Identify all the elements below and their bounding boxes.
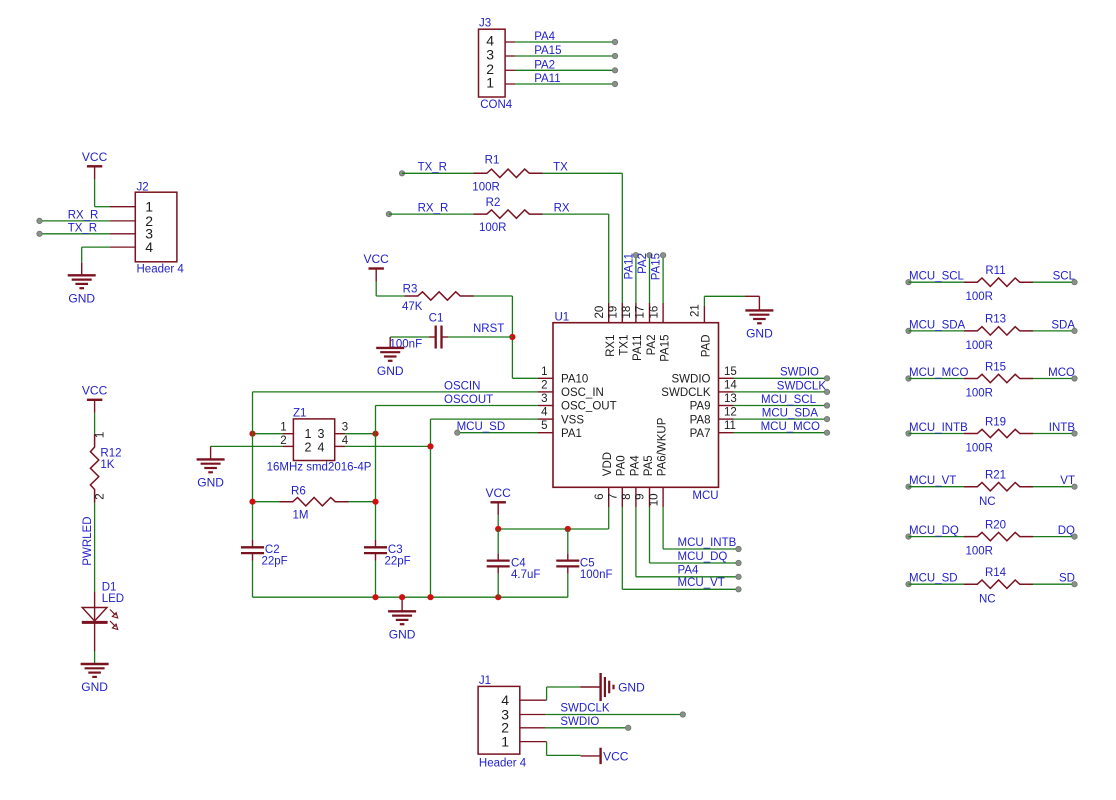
wire net PA11 vertical: [635, 255, 637, 303]
wire Z1 pin 2 to GND: [211, 445, 283, 447]
wire RX: [543, 213, 609, 215]
svg-text:SWDCLK: SWDCLK: [560, 703, 610, 715]
wire OSCOUT vertical below C3: [375, 561, 377, 598]
wire net MCU_INTB: [663, 548, 738, 550]
svg-text:15: 15: [724, 366, 737, 378]
wire pin 4 up: [546, 687, 548, 700]
wire TX_R to R1: [402, 172, 474, 174]
svg-text:8: 8: [621, 494, 633, 500]
svg-text:1: 1: [305, 427, 312, 441]
wire end node MCU_MCO: [824, 430, 829, 435]
svg-text:GND: GND: [618, 680, 645, 694]
wire C5 to rail: [567, 574, 569, 597]
label J2 designator: [137, 182, 149, 194]
junction rail GND: [399, 594, 405, 600]
label C4 designator: [511, 557, 526, 569]
svg-text:R15: R15: [985, 361, 1006, 373]
svg-text:R11: R11: [985, 265, 1005, 277]
svg-text:16: 16: [648, 306, 660, 319]
U1 pin 6 number: [594, 494, 606, 500]
svg-text:PA5: PA5: [643, 455, 655, 476]
svg-text:PA2: PA2: [646, 335, 658, 356]
wire end node MCU_SCL: [824, 403, 829, 408]
net label VT: [1060, 475, 1075, 487]
wire RX vertical to pin 20: [608, 214, 610, 303]
wire pin 21 to GND: [704, 295, 745, 297]
svg-text:OSC_OUT: OSC_OUT: [561, 401, 617, 413]
svg-text:R1: R1: [485, 155, 500, 167]
svg-text:PA4: PA4: [678, 565, 699, 577]
svg-text:VDD: VDD: [602, 452, 614, 476]
junction NRST node: [509, 334, 515, 340]
label R6 value 1M: [293, 509, 309, 521]
U1 pin 21 stub: [703, 306, 705, 323]
J1 pin 4 number: [501, 692, 509, 708]
U1 pin 14 number: [724, 379, 737, 391]
svg-text:D1: D1: [102, 581, 117, 593]
net label SWDCLK: [777, 380, 827, 392]
resistor R1: [474, 169, 543, 177]
resistor R11: [964, 278, 1033, 286]
wire net MCU_INTB: [909, 433, 965, 435]
label J1 value Header 4: [479, 758, 527, 770]
U1 pin 16 number: [648, 306, 660, 319]
Z1 pin 2 number: [280, 435, 286, 447]
svg-text:VCC: VCC: [82, 150, 108, 164]
svg-text:MCU_SCL: MCU_SCL: [909, 271, 965, 283]
J1 pin 3 number: [501, 706, 509, 722]
U1 pin name PA8: [690, 414, 711, 426]
net label MCO: [1048, 367, 1075, 379]
wire net MCU_DQ: [650, 562, 739, 564]
svg-text:R2: R2: [486, 197, 501, 209]
U1 pin 10 stub: [662, 487, 664, 507]
wire net OSCOUT: [376, 405, 539, 407]
svg-text:MCU_MCO: MCU_MCO: [761, 421, 820, 433]
svg-text:C2: C2: [265, 544, 280, 556]
wire net MCU_MCO: [734, 432, 828, 434]
U1 pin 4 number: [541, 407, 548, 419]
C2 bottom lead: [252, 553, 254, 561]
wire net SWDCLK: [734, 391, 828, 393]
label C1 designator: [429, 313, 444, 325]
capacitor C3 plates: [364, 547, 387, 553]
label D1 value LED: [102, 593, 124, 605]
label R15 designator: [985, 361, 1006, 373]
J2 pin 1 stub: [110, 206, 135, 208]
svg-text:VCC: VCC: [364, 252, 390, 266]
label R1 designator: [485, 155, 500, 167]
svg-text:4: 4: [145, 239, 153, 255]
U1 pin 17 stub: [649, 303, 651, 323]
svg-text:INTB: INTB: [1049, 422, 1076, 434]
U1 pin 12 number: [724, 407, 737, 419]
svg-text:2: 2: [541, 379, 547, 391]
svg-text:MCU_SCL: MCU_SCL: [761, 394, 817, 406]
net label PA4: [534, 31, 555, 43]
svg-text:MCU_SDA: MCU_SDA: [762, 408, 819, 420]
D1 cathode bar: [82, 621, 108, 624]
net label MCU_MCO: [909, 367, 968, 379]
svg-text:MCU_VT: MCU_VT: [678, 577, 725, 589]
label R12 value 1K: [100, 459, 114, 471]
wire end node SWDCLK: [824, 389, 829, 394]
wire RX_R to R2: [389, 213, 474, 215]
junction R6 left node: [249, 499, 255, 505]
svg-text:OSCOUT: OSCOUT: [444, 394, 493, 406]
svg-text:R13: R13: [985, 314, 1006, 326]
wire VCC to R3: [375, 282, 377, 297]
Z1 pin 1 number: [280, 421, 286, 433]
label C5 value 100nF: [580, 569, 613, 581]
wire VCC down: [497, 515, 499, 529]
svg-text:1: 1: [501, 734, 509, 750]
wire net INTB: [1033, 433, 1075, 435]
svg-text:100R: 100R: [966, 388, 994, 400]
svg-text:PA11: PA11: [534, 73, 560, 85]
power VCC (D1): [82, 384, 108, 413]
svg-text:1: 1: [95, 432, 107, 438]
wire net PA4: [515, 41, 615, 43]
U1 pin 17 number: [635, 306, 647, 319]
ground GND (rail): [388, 611, 416, 641]
svg-text:C4: C4: [511, 557, 526, 569]
wire end node PA15: [660, 253, 665, 258]
U1 pin name PA2: [646, 335, 658, 356]
junction VCC C4: [495, 526, 501, 532]
wire net MCU_SD (pin 5): [457, 432, 538, 434]
power VCC (J1): [581, 748, 629, 764]
label C3 value 22pF: [385, 556, 411, 568]
J2 pin 3 number: [145, 226, 153, 242]
junction R6 right node: [372, 499, 378, 505]
svg-text:22pF: 22pF: [262, 556, 288, 568]
svg-text:11: 11: [724, 420, 736, 432]
svg-text:Header 4: Header 4: [137, 264, 185, 276]
J3 pin 2 number: [486, 61, 494, 77]
svg-text:100R: 100R: [966, 443, 994, 455]
ground GND (C1): [376, 348, 404, 378]
GND stub: [81, 263, 83, 276]
svg-text:NC: NC: [979, 594, 996, 606]
net label MCU_SDA: [909, 319, 966, 331]
svg-text:R21: R21: [985, 470, 1006, 482]
svg-text:PA1: PA1: [561, 428, 582, 440]
U1 pin name VSS: [561, 414, 584, 426]
power VCC (J2): [82, 150, 108, 179]
U1 pin 4 stub: [538, 418, 553, 420]
C1 right lead: [442, 336, 449, 338]
wire to R6 left: [253, 501, 280, 503]
C4 bottom lead: [497, 566, 499, 574]
U1 pin 20 number: [594, 306, 606, 319]
U1 pin 16 stub: [662, 303, 664, 323]
svg-text:U1: U1: [555, 311, 570, 323]
label R13 value 100R: [966, 340, 994, 352]
net label OSCOUT: [444, 394, 493, 406]
wire MCU_INTB vertical: [662, 507, 664, 549]
wire PA4 vertical: [635, 507, 637, 577]
wire GND to C1: [390, 336, 429, 338]
wire end node PA2: [612, 68, 617, 73]
U1 pin 9 stub: [649, 487, 651, 507]
wire end node PA4: [736, 574, 741, 579]
U1 pin 11 stub: [719, 432, 734, 434]
svg-text:R19: R19: [985, 416, 1006, 428]
wire end node MCU_INTB: [906, 431, 911, 436]
net label RX: [554, 203, 570, 215]
D1 triangle: [82, 608, 107, 622]
wire TX: [543, 172, 623, 174]
wire end node RX_R: [37, 218, 42, 223]
svg-text:MCU_DQ: MCU_DQ: [678, 551, 728, 563]
wire D1 to GND: [94, 651, 96, 664]
svg-text:TX: TX: [553, 162, 568, 174]
resistor R12 1K vertical: [90, 434, 98, 503]
wire net SD: [1033, 583, 1075, 585]
svg-text:SDA: SDA: [1051, 319, 1075, 331]
U1 pin name PA9: [690, 401, 711, 413]
label R19 designator: [985, 416, 1006, 428]
label C2 value 22pF: [262, 556, 288, 568]
svg-text:20: 20: [594, 306, 606, 319]
svg-text:4: 4: [541, 407, 548, 419]
U1 pin 6 stub: [608, 487, 610, 507]
net label SWDIO: [780, 367, 819, 379]
wire net VT: [1033, 486, 1075, 488]
wire to GND: [547, 686, 581, 688]
label R6 designator: [291, 486, 306, 498]
wire to C5: [567, 529, 569, 553]
wire end node PA2: [647, 253, 652, 258]
svg-text:PA15: PA15: [659, 335, 671, 362]
U1 pin 20 stub: [608, 303, 610, 323]
svg-text:PA11: PA11: [632, 335, 644, 361]
wire VCC rail to pin 6: [498, 528, 609, 530]
wire end node PA11: [633, 253, 638, 258]
label R21 designator: [985, 470, 1006, 482]
svg-text:SWDCLK: SWDCLK: [777, 380, 827, 392]
label R19 value 100R: [966, 443, 994, 455]
R12 pin 1 number: [95, 432, 107, 438]
svg-text:J1: J1: [479, 675, 491, 687]
J1 pin 2 stub: [520, 727, 546, 729]
U1 pin 12 stub: [719, 418, 734, 420]
U1 pin 1 stub: [538, 377, 553, 379]
ground GND (pin 21): [745, 310, 773, 340]
svg-text:PAD: PAD: [701, 335, 713, 358]
U1 pin name PA6/WKUP: [657, 417, 669, 476]
wire end node MCU_DQ: [736, 560, 741, 565]
MCU U1 body: [553, 323, 719, 488]
capacitor C1 plates: [436, 326, 442, 349]
svg-text:MCU_SD: MCU_SD: [909, 573, 958, 585]
junction Z1 pin1 node: [249, 431, 255, 437]
wire net SWDIO: [734, 377, 828, 379]
U1 pin 21 number: [690, 304, 702, 317]
capacitor C4 plates: [487, 561, 510, 567]
svg-text:PA4: PA4: [534, 31, 555, 43]
wire end node MCU_SD: [906, 582, 911, 587]
svg-text:PA2: PA2: [637, 253, 649, 274]
net label RX_R: [418, 203, 449, 215]
D1 arrow 1: [110, 610, 118, 619]
U1 pin name PA5: [643, 455, 655, 476]
wire end node SCL: [1072, 280, 1077, 285]
wire net MCU_SCL: [734, 405, 828, 407]
net label PA11: [623, 253, 635, 279]
U1 pin name PA7: [690, 428, 711, 440]
wire net MCU_MCO: [909, 378, 965, 380]
wire NRST to pin 1: [512, 377, 538, 379]
C2 top lead: [252, 540, 254, 547]
svg-text:PA0: PA0: [616, 455, 628, 476]
net label MCU_SD: [909, 573, 958, 585]
label R12 designator: [100, 448, 121, 460]
wire VCC to R12: [94, 413, 96, 434]
U1 pin name SWDIO: [672, 374, 711, 386]
net label SDA: [1051, 319, 1075, 331]
svg-text:J3: J3: [479, 17, 491, 29]
wire VSS vertical: [430, 419, 432, 597]
J1 pin 2 number: [501, 720, 509, 736]
label C4 value 4.7uF: [511, 569, 540, 581]
wire J2 pin1 to VCC: [95, 206, 110, 208]
svg-text:R3: R3: [403, 284, 418, 296]
U1 pin 13 stub: [719, 405, 734, 407]
label J3 designator: [479, 17, 491, 29]
label R2 designator: [486, 197, 501, 209]
junction Z1 pin4 / VSS node: [427, 443, 433, 449]
wire OSCIN vertical: [252, 392, 254, 540]
wire net OSCIN: [253, 391, 539, 393]
J1 pin 1 stub: [520, 741, 547, 743]
U1 pin 7 stub: [621, 487, 623, 507]
wire end node SD: [1072, 582, 1077, 587]
svg-text:GND: GND: [389, 627, 416, 641]
wire end node MCU_VT: [906, 484, 911, 489]
net label RX_R: [68, 209, 99, 221]
wire net RX_R: [40, 220, 111, 222]
net label MCU_SCL: [761, 394, 817, 406]
wire TX vertical to pin 19: [621, 173, 623, 303]
wire net MCU_SDA: [734, 418, 828, 420]
J3 pin 3 number: [486, 47, 494, 63]
U1 pin name PA0: [616, 455, 628, 476]
net label MCU_DQ: [678, 551, 728, 563]
GND lead: [581, 686, 601, 688]
svg-text:4: 4: [318, 441, 325, 455]
svg-text:R14: R14: [985, 567, 1007, 579]
svg-text:18: 18: [621, 306, 633, 319]
resistor R2: [474, 210, 543, 218]
svg-text:22pF: 22pF: [385, 556, 411, 568]
label C5 designator: [580, 557, 595, 569]
wire end node INTB: [1072, 431, 1077, 436]
net label MCU_INTB: [909, 422, 968, 434]
wire end node SWDIO: [824, 376, 829, 381]
label R14 value NC: [979, 594, 996, 606]
resistor R13: [964, 327, 1033, 335]
junction rail C4: [495, 594, 501, 600]
net label PA2: [534, 59, 555, 71]
U1 pin 3 number: [541, 393, 547, 405]
svg-text:PWRLED: PWRLED: [82, 516, 94, 565]
U1 pin 19 stub: [621, 303, 623, 323]
net label TX_R: [418, 162, 447, 174]
svg-text:2: 2: [95, 493, 107, 499]
svg-text:100R: 100R: [966, 546, 994, 558]
label R21 value NC: [979, 496, 996, 508]
ground GND (Z1): [197, 459, 225, 489]
svg-text:CON4: CON4: [480, 99, 513, 111]
wire to VCC: [547, 754, 581, 756]
wire R3 to NRST node: [474, 295, 513, 297]
wire end node SWDCLK: [680, 712, 685, 717]
Z1 pin 1 stub: [283, 433, 293, 435]
U1 pin 15 number: [724, 366, 737, 378]
svg-text:MCU_INTB: MCU_INTB: [909, 422, 968, 434]
label R11 designator: [985, 265, 1005, 277]
U1 pin 15 stub: [719, 377, 734, 379]
label J1 designator: [479, 675, 491, 687]
wire OSCOUT vertical: [375, 406, 377, 541]
junction Z1 pin3 node: [372, 431, 378, 437]
svg-text:MCU: MCU: [692, 490, 718, 502]
C3 bottom lead: [375, 553, 377, 561]
wire Z1 pin 1: [253, 433, 284, 435]
wire net MCU_SCL: [909, 281, 965, 283]
wire net SWDCLK: [545, 714, 682, 716]
svg-text:10: 10: [648, 494, 660, 507]
J3 pin 4 number: [486, 33, 494, 49]
GND lead: [745, 295, 759, 297]
J2 pin 1 number: [145, 199, 153, 215]
svg-text:2: 2: [305, 441, 312, 455]
wire to C4: [497, 529, 499, 553]
svg-text:1: 1: [486, 75, 494, 91]
wire pin 1 down: [546, 742, 548, 756]
D1 cathode lead: [94, 621, 96, 651]
svg-text:PA15: PA15: [534, 45, 561, 57]
svg-text:MCU_DQ: MCU_DQ: [909, 525, 959, 537]
svg-text:21: 21: [690, 304, 702, 317]
svg-text:RX_R: RX_R: [68, 209, 99, 221]
J1 pin 4 stub: [520, 699, 547, 701]
wire end node MCU_DQ: [906, 534, 911, 539]
svg-text:100R: 100R: [966, 340, 994, 352]
U1 pin 3 stub: [538, 405, 553, 407]
wire C4 to rail: [497, 574, 499, 597]
wire end node MCU_SD: [455, 430, 460, 435]
J2 pin 2 number: [145, 213, 153, 229]
resistor R3: [405, 292, 474, 300]
label R20 value 100R: [966, 546, 994, 558]
junction VCC C5: [565, 526, 571, 532]
svg-text:GND: GND: [68, 291, 95, 305]
capacitor C2 plates: [241, 547, 264, 553]
svg-text:MCU_VT: MCU_VT: [909, 475, 956, 487]
net label PA2: [637, 253, 649, 274]
U1 pin 5 number: [541, 420, 547, 432]
svg-text:5: 5: [541, 420, 547, 432]
U1 pin 10 number: [648, 494, 660, 507]
C5 bottom lead: [567, 566, 569, 574]
connector J2 (Header 4): [135, 192, 177, 262]
junction rail VSS: [427, 594, 433, 600]
resistor R6 1M: [280, 498, 349, 506]
U1 pin 8 stub: [635, 487, 637, 507]
